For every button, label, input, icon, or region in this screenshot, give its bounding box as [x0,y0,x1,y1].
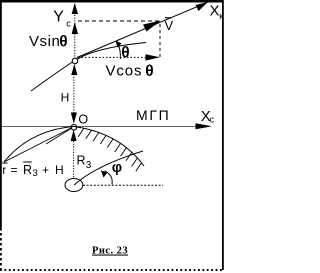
radius phi line [74,151,143,185]
border left solid [0,0,2,228]
trajectory curve [31,43,146,92]
hatch 10 [136,163,142,172]
hatch 4 [100,135,106,144]
axis Xc line (MGP horizon) [2,125,197,127]
segment R3 dotted line [73,141,75,179]
svg-text:R: R [77,153,86,167]
svg-text:X: X [210,3,220,20]
earth surface arc right [74,127,144,167]
hatch 8 [126,152,132,161]
angle phi arc [105,171,113,185]
hatch 5 [107,139,113,148]
vector Vsin-theta arrowhead [72,22,78,34]
dashed line right of V rectangle [159,24,161,58]
dimension H dotted line [73,66,75,121]
dimension H top arrowhead [71,64,77,75]
axis Yc arrowhead [72,3,78,14]
angle phi arrowhead [101,170,108,177]
svg-text:+: + [42,163,49,177]
earth surface arc left [4,127,74,163]
overbar R [23,161,32,163]
svg-text:H: H [55,163,64,177]
svg-text:H: H [61,91,70,105]
dotted horizontal Vcos line [78,56,148,58]
svg-text:θ: θ [59,34,67,51]
hatch 9 [132,158,138,167]
hatch 7 [121,148,127,157]
svg-text:θ: θ [121,45,129,62]
svg-text:θ: θ [145,63,153,80]
vector V arrowhead [143,21,161,32]
svg-text:3: 3 [33,168,38,179]
svg-text:Y: Y [53,9,64,26]
hatch 3 [93,133,99,142]
svg-text:c: c [210,115,215,125]
hatch 2 [86,130,92,139]
svg-text:=: = [11,163,18,177]
svg-text:O: O [78,113,88,127]
axis Xk arrowhead [196,2,209,11]
dashed line top of V rectangle [78,20,160,22]
border bottom dotted [0,269,224,271]
earth center circle [65,179,83,192]
svg-text:φ: φ [112,160,122,176]
hatch 1 [78,128,84,137]
dimension H bottom arrowhead [71,113,77,124]
segment R3 arrowhead [71,130,77,141]
svg-text:к: к [219,11,223,21]
border right [222,0,224,270]
svg-text:V: V [165,18,174,33]
svg-text:МГП: МГП [136,107,170,123]
svg-text:r: r [2,163,6,177]
svg-text:3: 3 [86,160,92,171]
angle theta arc [118,45,120,60]
svg-text:Vsin: Vsin [29,33,60,50]
border top [0,0,224,3]
angle theta arc arrowhead [116,41,122,48]
trajectory point circle [72,58,78,64]
overbar r [2,162,7,164]
axis Yc dotted line [74,4,76,58]
axis Xk line [77,5,200,57]
svg-text:Рис. 23: Рис. 23 [92,246,128,257]
svg-text:c: c [66,19,71,29]
hatch left long [46,129,71,145]
svg-text:Vcos: Vcos [106,63,143,80]
chord line [4,128,72,163]
node O circle [71,125,77,131]
svg-text:R: R [23,163,32,177]
axis Xc arrowhead [196,123,213,129]
dashed horizontal from earth center [83,184,163,186]
border left dashed [0,228,2,270]
vector Vcos-theta arrowhead [146,54,161,60]
hatch 6 [115,143,121,152]
